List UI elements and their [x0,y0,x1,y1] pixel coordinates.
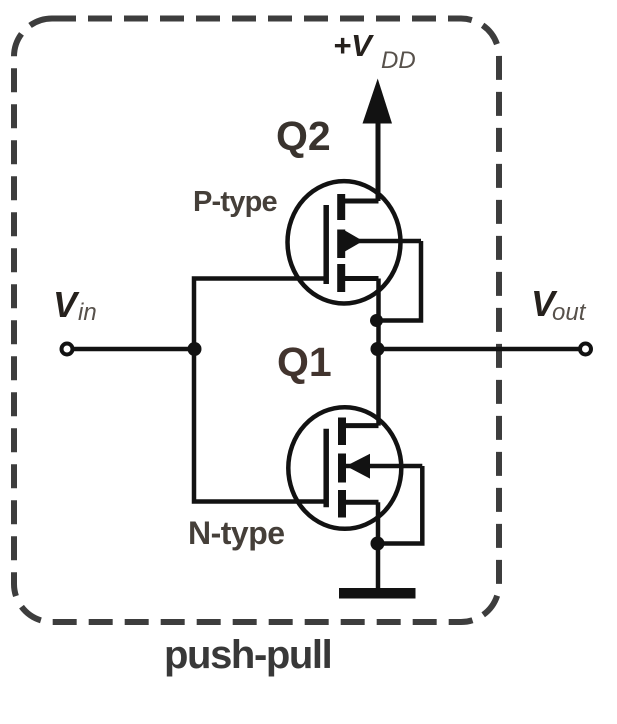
wire: input node down to Q1 gate [194,349,326,502]
wire: Q1 body loop to source [377,466,422,544]
junction: output node [371,342,385,356]
output terminal Vout [531,283,591,355]
transistor Q1 (N-type MOSFET) [288,407,422,529]
wire: Q1 source down to ground [376,502,381,589]
svg-text:push-pull: push-pull [164,633,331,677]
svg-text:DD: DD [381,47,416,74]
wire: output node to Vout terminal [378,347,581,352]
wire: output node down to Q1 drain [376,349,381,426]
wire: Q2 body loop to source [376,241,421,321]
svg-text:in: in [78,299,97,326]
svg-text:Q1: Q1 [277,339,332,385]
junction: Q2 body-source tie [370,314,383,327]
supply arrow (to +VDD) [363,79,393,202]
svg-text:P-type: P-type [193,186,278,218]
svg-text:out: out [552,299,587,326]
svg-text:N-type: N-type [188,515,285,551]
wire: input node up to Q2 gate [194,279,326,350]
dashed enclosure box [14,19,499,623]
junction: Q1 body-source tie [371,537,385,551]
input terminal Vin [53,284,97,355]
supply label +VDD [333,28,416,74]
svg-text:+V: +V [333,28,374,63]
junction: input node [188,342,202,356]
svg-text:Q2: Q2 [276,113,331,159]
wire: Q2 source down to output node [376,279,381,350]
wire: Vin terminal to input node [73,347,195,352]
ground symbol [339,588,416,599]
transistor Q2 (P-type MOSFET) [288,181,422,303]
svg-text:V: V [53,284,80,325]
